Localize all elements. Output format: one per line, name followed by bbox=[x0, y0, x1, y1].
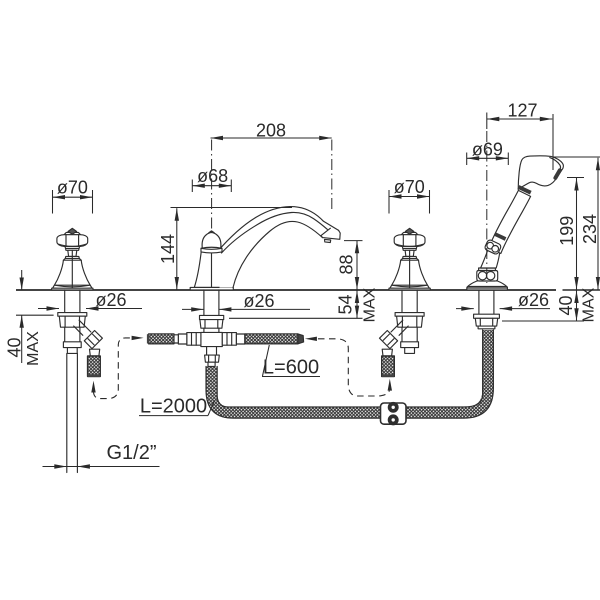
dim ø26 spout bbox=[182, 291, 310, 312]
deck line right segment bbox=[563, 289, 600, 291]
dim ø70 right bbox=[389, 177, 430, 214]
valve handle left (hot) bbox=[52, 228, 94, 290]
svg-text:54: 54 bbox=[336, 294, 356, 314]
spout knob bbox=[201, 231, 222, 253]
svg-text:ø26: ø26 bbox=[518, 290, 549, 310]
svg-text:208: 208 bbox=[256, 121, 286, 141]
svg-text:40: 40 bbox=[4, 337, 24, 357]
svg-text:ø26: ø26 bbox=[95, 290, 126, 310]
dim 40 MAX left bbox=[4, 270, 53, 366]
hand shower shank below deck bbox=[474, 290, 500, 329]
hand shower holder cone bbox=[481, 251, 500, 269]
dim ø26 shower bbox=[456, 290, 550, 311]
label L=2000 bbox=[139, 396, 215, 418]
right valve body below deck (mirrored) bbox=[380, 290, 425, 377]
tee right hose (L=600) bbox=[245, 334, 304, 344]
deck surface line bbox=[16, 289, 556, 291]
dim ø68 bbox=[192, 166, 231, 192]
spout body (gooseneck) bbox=[214, 207, 341, 288]
grip band upper bbox=[518, 185, 532, 194]
G1/2 supply pipe below left valve bbox=[67, 354, 78, 473]
svg-text:ø70: ø70 bbox=[394, 177, 425, 197]
svg-text:ø68: ø68 bbox=[197, 166, 228, 186]
spout shank below deck bbox=[200, 290, 224, 332]
dim 144 bbox=[158, 208, 292, 290]
svg-text:G1/2”: G1/2” bbox=[106, 442, 156, 464]
svg-text:40: 40 bbox=[556, 295, 576, 315]
dim 54 MAX bbox=[229, 287, 379, 322]
tee bottom fittings bbox=[205, 347, 220, 367]
svg-text:MAX: MAX bbox=[581, 287, 598, 322]
label L=600 bbox=[262, 345, 320, 379]
arrow right to tee left hose bbox=[132, 336, 144, 340]
dim 127 bbox=[487, 101, 553, 284]
grip band lower bbox=[494, 232, 506, 240]
dim ø26 left valve bbox=[38, 290, 142, 311]
arrow left to tee right hose bbox=[305, 337, 317, 341]
svg-text:L=2000: L=2000 bbox=[140, 396, 207, 418]
hose weight bbox=[381, 402, 407, 424]
hand shower hose L=2000 bbox=[206, 330, 493, 418]
svg-text:L=600: L=600 bbox=[263, 357, 319, 379]
left valve body below deck bbox=[58, 290, 103, 377]
svg-text:ø70: ø70 bbox=[57, 178, 88, 198]
dashed connect route left bbox=[94, 338, 132, 399]
tee fitting bbox=[178, 332, 245, 346]
dashed connect route right bbox=[318, 339, 389, 396]
dim 208 bbox=[211, 121, 332, 232]
hand shower ball joint bbox=[484, 239, 502, 255]
svg-text:ø26: ø26 bbox=[243, 291, 274, 311]
svg-text:234: 234 bbox=[580, 214, 600, 244]
dim 234 bbox=[553, 157, 600, 290]
dim 88 bbox=[337, 241, 363, 290]
dim G1/2 bbox=[43, 442, 160, 469]
valve handle right (cold) bbox=[389, 228, 431, 290]
hand shower holder barrel bbox=[477, 268, 498, 281]
tee left hose (L=600) bbox=[147, 334, 178, 344]
svg-text:ø69: ø69 bbox=[472, 140, 503, 160]
hand shower holder base bbox=[467, 281, 508, 290]
svg-text:144: 144 bbox=[158, 234, 178, 264]
svg-text:88: 88 bbox=[337, 254, 357, 274]
spout base bbox=[190, 252, 233, 290]
dim ø70 left bbox=[53, 178, 93, 214]
arrow up to left valve hose bbox=[91, 381, 95, 393]
dim ø69 bbox=[467, 140, 509, 166]
svg-text:MAX: MAX bbox=[25, 331, 42, 366]
svg-text:127: 127 bbox=[507, 101, 537, 121]
svg-text:199: 199 bbox=[557, 216, 577, 246]
svg-text:MAX: MAX bbox=[362, 287, 379, 322]
hand shower head bbox=[518, 156, 563, 190]
hand shower grip bbox=[489, 190, 531, 253]
dim 40 MAX right bbox=[502, 287, 598, 322]
dim 199 bbox=[557, 178, 584, 291]
arrow up to right valve hose bbox=[388, 379, 392, 391]
